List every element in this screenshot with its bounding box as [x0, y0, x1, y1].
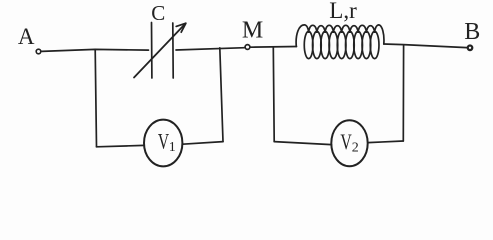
svg-text:2: 2	[352, 141, 359, 156]
wire capacitor to M	[176, 48, 245, 50]
voltmeter V2	[331, 120, 367, 166]
capacitor C plates	[152, 23, 174, 79]
svg-text:V: V	[158, 128, 169, 153]
wire bottom left to V1	[97, 145, 145, 146]
wire inductor to B	[384, 44, 467, 48]
wire left branch down	[95, 50, 96, 147]
svg-text:C: C	[151, 1, 165, 25]
wire A to capacitor	[42, 49, 149, 51]
wire M to inductor	[250, 46, 296, 49]
node M terminal	[245, 45, 250, 50]
wire right branch of V1 up	[220, 48, 223, 142]
wire left branch of V2 down	[272, 47, 275, 142]
svg-text:M: M	[242, 18, 263, 44]
inductor L,r coil loops	[304, 31, 313, 58]
svg-text:L,r: L,r	[329, 0, 357, 23]
svg-text:A: A	[18, 24, 35, 49]
wire right branch of V2 up	[402, 45, 404, 141]
inductor L,r hump wave	[296, 25, 384, 47]
wire V1 to right branch	[183, 142, 223, 145]
svg-text:V: V	[340, 129, 351, 154]
svg-text:1: 1	[169, 140, 176, 155]
wire V2 to right branch	[368, 141, 404, 143]
variable-capacitor arrow	[134, 24, 186, 78]
svg-text:B: B	[464, 19, 480, 45]
node A terminal	[36, 49, 41, 54]
voltmeter V1	[144, 120, 182, 167]
node B terminal	[468, 46, 473, 51]
wire bottom to V2	[274, 142, 331, 145]
